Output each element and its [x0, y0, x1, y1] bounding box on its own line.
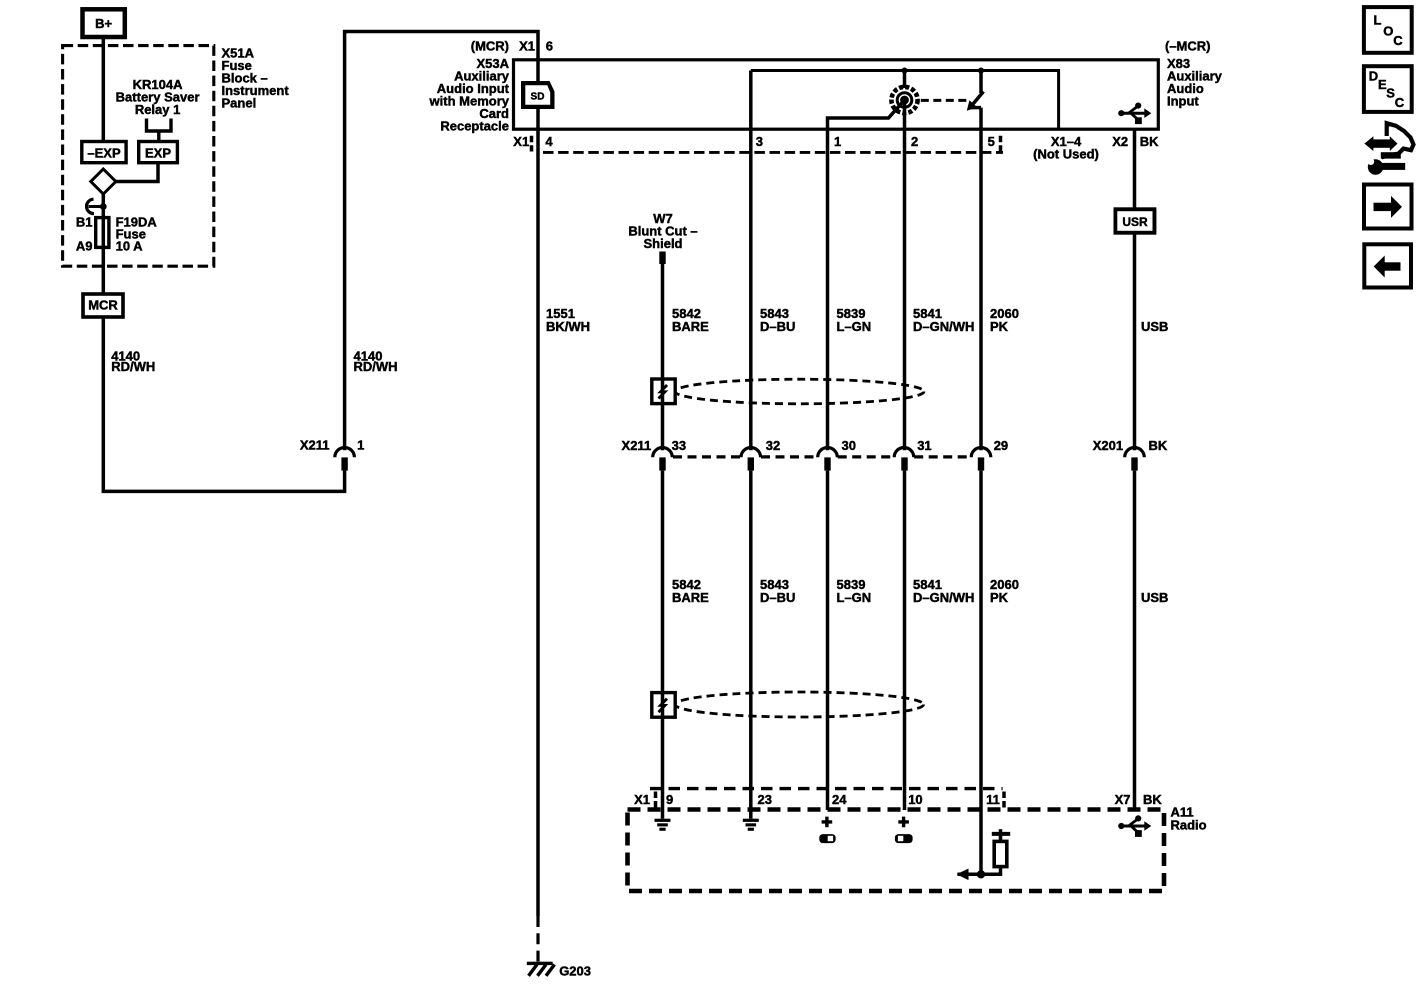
svg-text:Receptacle: Receptacle	[440, 119, 509, 134]
svg-text:31: 31	[917, 438, 931, 453]
svg-text:(–MCR): (–MCR)	[1165, 39, 1211, 54]
svg-text:(Not Used): (Not Used)	[1033, 147, 1099, 162]
svg-text:MCR: MCR	[88, 298, 118, 313]
svg-text:10: 10	[908, 792, 922, 807]
svg-text:–EXP: –EXP	[87, 145, 121, 160]
svg-text:X1: X1	[519, 39, 535, 54]
svg-text:D–BU: D–BU	[760, 319, 795, 334]
svg-text:A9: A9	[76, 239, 93, 254]
svg-text:Panel: Panel	[222, 95, 257, 110]
svg-text:O: O	[1383, 23, 1393, 38]
svg-text:Radio: Radio	[1171, 818, 1207, 833]
svg-text:5: 5	[988, 134, 995, 149]
svg-text:RD/WH: RD/WH	[354, 359, 398, 374]
svg-text:X201: X201	[1093, 438, 1123, 453]
svg-text:USR: USR	[1122, 215, 1148, 229]
svg-text:BK/WH: BK/WH	[546, 319, 590, 334]
svg-text:BK: BK	[1143, 792, 1162, 807]
svg-text:D–GN/WH: D–GN/WH	[913, 590, 974, 605]
svg-text:X211: X211	[300, 438, 330, 453]
svg-text:X211: X211	[622, 438, 652, 453]
svg-text:Input: Input	[1167, 94, 1199, 109]
svg-text:X7: X7	[1115, 792, 1131, 807]
svg-text:23: 23	[758, 792, 772, 807]
svg-text:X1: X1	[634, 792, 650, 807]
svg-text:24: 24	[832, 792, 847, 807]
svg-text:33: 33	[672, 438, 686, 453]
svg-text:L: L	[1374, 12, 1382, 27]
svg-text:G203: G203	[559, 964, 591, 979]
svg-text:EXP: EXP	[145, 145, 171, 160]
svg-text:PK: PK	[990, 319, 1009, 334]
svg-text:PK: PK	[990, 590, 1009, 605]
svg-text:9: 9	[666, 792, 673, 807]
svg-text:C: C	[1393, 33, 1403, 48]
svg-text:BK: BK	[1140, 134, 1159, 149]
svg-text:6: 6	[546, 39, 553, 54]
svg-text:X1: X1	[513, 134, 529, 149]
svg-text:RD/WH: RD/WH	[111, 359, 155, 374]
svg-text:4: 4	[545, 134, 553, 149]
svg-text:SD: SD	[531, 92, 545, 103]
svg-text:32: 32	[766, 438, 780, 453]
svg-text:BARE: BARE	[672, 319, 709, 334]
svg-text:BARE: BARE	[672, 590, 709, 605]
svg-text:USB: USB	[1141, 590, 1168, 605]
svg-text:B1: B1	[76, 215, 93, 230]
svg-text:Shield: Shield	[643, 236, 682, 251]
svg-text:D–GN/WH: D–GN/WH	[913, 319, 974, 334]
svg-text:L–GN: L–GN	[837, 319, 872, 334]
svg-text:2: 2	[911, 134, 918, 149]
svg-text:10 A: 10 A	[116, 239, 144, 254]
svg-text:BK: BK	[1149, 438, 1168, 453]
svg-text:D–BU: D–BU	[760, 590, 795, 605]
svg-text:L–GN: L–GN	[837, 590, 872, 605]
svg-text:X2: X2	[1112, 134, 1128, 149]
svg-text:29: 29	[994, 438, 1008, 453]
svg-text:30: 30	[842, 438, 856, 453]
svg-text:11: 11	[986, 792, 1000, 807]
svg-text:3: 3	[756, 134, 763, 149]
svg-text:1: 1	[357, 438, 364, 453]
svg-text:(MCR): (MCR)	[471, 39, 509, 54]
svg-text:USB: USB	[1141, 319, 1168, 334]
svg-text:B+: B+	[95, 16, 112, 31]
svg-text:1: 1	[834, 134, 841, 149]
svg-text:D: D	[1369, 68, 1378, 83]
svg-text:Relay 1: Relay 1	[135, 102, 181, 117]
svg-text:C: C	[1395, 95, 1405, 110]
